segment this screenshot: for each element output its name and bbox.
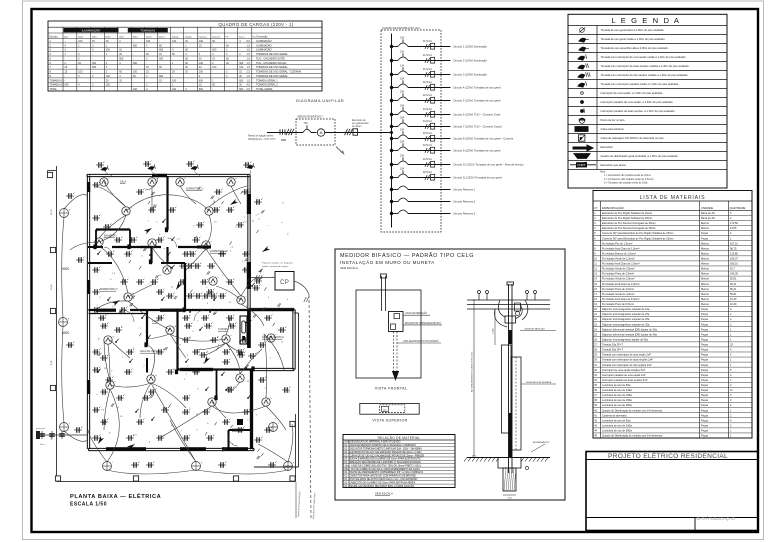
svg-text:Metros: Metros [701, 257, 710, 261]
svg-text:de 32mm: de 32mm [352, 126, 362, 128]
svg-text:100: 100 [106, 84, 111, 87]
svg-text:183,10: 183,10 [730, 262, 738, 266]
svg-text:ESCALA 1/50: ESCALA 1/50 [70, 502, 107, 508]
svg-text:c: c [170, 266, 171, 268]
svg-text:#4,0mm²: #4,0mm² [423, 108, 432, 111]
service entrance wire (left feed) [267, 132, 296, 134]
svg-text:Peças: Peças [701, 353, 709, 357]
svg-text:Peças: Peças [701, 383, 709, 387]
svg-text:c: c [98, 238, 99, 240]
svg-text:Peças: Peças [701, 368, 709, 372]
svg-text:100: 100 [78, 71, 83, 74]
leader curves from arandelas [104, 170, 112, 176]
svg-text:CAIXA DE MEDIÇÃO: CAIXA DE MEDIÇÃO [405, 312, 427, 315]
interior walls [166, 176, 168, 230]
svg-text:100: 100 [212, 66, 217, 69]
svg-text:10,30: 10,30 [730, 297, 737, 301]
svg-text:243,35: 243,35 [730, 272, 738, 276]
svg-text:Peças: Peças [701, 307, 709, 311]
svg-text:Luminária de uso de 300w: Luminária de uso de 300w [602, 429, 632, 433]
svg-text:Eletroduto de Pvc Rígido Soldá: Eletroduto de Pvc Rígido Soldável de 25m… [602, 216, 652, 220]
svg-text:Peças: Peças [701, 348, 709, 352]
medidor detail outer box [335, 249, 565, 500]
leaders [403, 314, 430, 316]
svg-text:10,30: 10,30 [730, 302, 737, 306]
svg-text:6000: 6000 [62, 331, 69, 335]
svg-text:100: 100 [172, 79, 177, 82]
svg-text:Peças: Peças [701, 418, 709, 422]
kWh meter M [311, 132, 317, 134]
svg-text:LISTA DE MATERIAIS: LISTA DE MATERIAIS [640, 195, 706, 201]
svg-text:20A: 20A [400, 128, 405, 131]
svg-text:ATERRAMENTO: ATERRAMENTO [533, 441, 550, 444]
pole detail: network wires [467, 299, 550, 301]
svg-text:Metros: Metros [701, 262, 710, 266]
svg-text:DORMITÓRIO 3: DORMITÓRIO 3 [100, 288, 118, 291]
black leader arrows [144, 228, 152, 234]
house exterior walls [87, 173, 250, 175]
svg-text:Fuga de conduíte, ver diagrama: Fuga de conduíte, ver diagrama [262, 262, 294, 265]
jumper wires [498, 300, 505, 317]
svg-text:Nº: Nº [595, 206, 598, 210]
svg-text:Eletroduto.: Eletroduto. [601, 145, 614, 149]
door swing arcs [145, 177, 158, 190]
svg-text:Barra de 3m: Barra de 3m [701, 216, 715, 220]
circuit branch 6 [390, 113, 393, 116]
svg-text:Peças: Peças [701, 327, 709, 331]
side yard wall [298, 313, 300, 467]
svg-text:150w: 150w [92, 36, 98, 38]
svg-text:ILUMINAÇÃO: ILUMINAÇÃO [256, 49, 272, 52]
outdoor pole lights [60, 209, 69, 218]
svg-text:LINK ELETRODUTO PVC RÍGIDO: LINK ELETRODUTO PVC RÍGIDO [403, 340, 439, 343]
svg-text:600: 600 [159, 75, 164, 78]
svg-text:01 - ARAME GALVANIZADO RECOZID: 01 - ARAME GALVANIZADO RECOZIDO BWG 14 P… [345, 485, 415, 488]
svg-text:Disjuntor termomagnético unipo: Disjuntor termomagnético unipolar de 20a [602, 317, 650, 321]
svg-text:Peças: Peças [701, 434, 709, 438]
svg-text:Circuito 9 (220V) Tomadas de u: Circuito 9 (220V) Tomadas de uso geral [453, 149, 501, 153]
svg-text:20A: 20A [400, 167, 405, 170]
svg-text:100: 100 [199, 40, 204, 43]
svg-text:100: 100 [172, 40, 177, 43]
svg-text:100: 100 [172, 88, 177, 91]
feeder down from CP [294, 281, 309, 295]
svg-text:600: 600 [92, 66, 97, 69]
svg-text:Curva de 90° para Eletroduto d: Curva de 90° para Eletroduto de Pvc Rígi… [602, 231, 673, 235]
circuit branch 7 [390, 125, 393, 128]
svg-text:Metros: Metros [701, 267, 710, 271]
svg-text:Fio Isolado Branco de 1,5mm²: Fio Isolado Branco de 1,5mm² [602, 251, 636, 255]
svg-text:Quadro de distribuição geral e: Quadro de distribuição geral embutido, a… [601, 154, 679, 158]
svg-text:TUG - CHUVEIRO SUÍTE: TUG - CHUVEIRO SUÍTE [256, 57, 285, 60]
svg-text:100: 100 [106, 75, 111, 78]
svg-text:Fio Isolado Verde de 1,5mm²: Fio Isolado Verde de 1,5mm² [602, 257, 635, 261]
svg-text:10A: 10A [400, 36, 405, 39]
svg-text:Tomada com interruptor de duas: Tomada com interruptor de duas seções 2x… [602, 358, 653, 362]
svg-text:QD: QD [383, 410, 387, 412]
svg-text:P: P [580, 137, 582, 141]
svg-text:5000: 5000 [62, 267, 69, 271]
dimension vertical [473, 300, 475, 456]
svg-text:Circuito 7 (220V) TUG – Chuvei: Circuito 7 (220V) TUG – Chuveiro Social [453, 125, 502, 129]
svg-text:INSTALAÇÃO EM MURO OU MURE: INSTALAÇÃO EM MURO OU MURETA [340, 259, 435, 265]
svg-text:L E G E N D A: L E G E N D A [611, 16, 680, 25]
svg-text:MEDIDOR BIFÁSICO: MEDIDOR BIFÁSICO [298, 115, 323, 119]
svg-text:TOMADA G 2: TOMADA G 2 [50, 84, 65, 87]
svg-text:98,75: 98,75 [730, 246, 737, 250]
svg-text:Tomada com interruptor de três: Tomada com interruptor de três seções 2x… [602, 363, 652, 367]
svg-text:unifilar e quadro de cargas: unifilar e quadro de cargas [262, 265, 289, 268]
svg-text:TOMADAS DE USO GERAL - COZINHA: TOMADAS DE USO GERAL - COZINHA [256, 71, 301, 74]
ground line + hatch [467, 457, 550, 459]
svg-text:Tomada com interruptor de uma: Tomada com interruptor de uma seção 2x4" [602, 353, 651, 357]
svg-text:CAIXA DE MEDIÇÃO: CAIXA DE MEDIÇÃO [524, 328, 545, 331]
svg-text:ALTURA MÍNIMA DO CONDUTOR 5,50: ALTURA MÍNIMA DO CONDUTOR 5,50m [471, 351, 474, 392]
svg-text:100: 100 [133, 88, 138, 91]
svg-text:Circuito Reserva 3: Circuito Reserva 3 [453, 212, 476, 216]
svg-text:Fio Isolado Preto de 2,5mm²: Fio Isolado Preto de 2,5mm² [602, 272, 634, 276]
svg-text:Disjuntor diferencial residual: Disjuntor diferencial residual (DR) bipo… [602, 327, 658, 331]
svg-text:Tomada com interruptor paralel: Tomada com interruptor paralelo médio a … [601, 82, 680, 86]
svg-text:Metros: Metros [701, 282, 710, 286]
svg-text:100: 100 [199, 62, 204, 65]
svg-text:Circuito 5 (220V) Tomadas de u: Circuito 5 (220V) Tomadas de uso geral [453, 99, 501, 103]
svg-text:Peças: Peças [701, 332, 709, 336]
svg-text:29,70: 29,70 [51, 209, 53, 215]
svg-text:Tomada 20a 2P+T: Tomada 20a 2P+T [602, 348, 623, 352]
svg-text:c: c [206, 287, 207, 289]
mural stand rects [502, 345, 512, 433]
svg-text:Peças: Peças [701, 429, 709, 433]
relacao de material table [343, 435, 455, 488]
svg-text:Tomada 10a 2P+T: Tomada 10a 2P+T [602, 343, 623, 347]
window marks on top wall [152, 174, 167, 177]
svg-text:Circuito 11 (220V) Tomadas de: Circuito 11 (220V) Tomadas de uso geral [453, 176, 502, 180]
circuit branch 8 [390, 137, 393, 140]
svg-text:Disjuntor termomagnético bipol: Disjuntor termomagnético bipolar de 50a [602, 337, 648, 341]
svg-text:30A: 30A [400, 116, 405, 119]
svg-text:TOMADAS DE USO GERAL: TOMADAS DE USO GERAL [256, 75, 288, 78]
svg-text:PROJETO ELÉTRICO RESIDENCIAL: PROJETO ELÉTRICO RESIDENCIAL [608, 451, 728, 460]
entrance at left bottom [36, 434, 88, 436]
svg-text:Ponto de luz no teto.: Ponto de luz no teto. [601, 118, 626, 122]
svg-text:Peças: Peças [701, 398, 709, 402]
svg-text:Fio Isolado Azul Claro de 2,5m: Fio Isolado Azul Claro de 2,5mm² [602, 262, 640, 266]
quadro de cargas table [48, 21, 322, 91]
svg-text:Metros: Metros [701, 226, 710, 230]
svg-text:Metros: Metros [701, 246, 710, 250]
svg-text:SALA: SALA [120, 181, 127, 184]
svg-text:20A: 20A [400, 77, 405, 80]
svg-text:Peças: Peças [701, 236, 709, 240]
svg-text:100: 100 [78, 40, 83, 43]
svg-text:Peças: Peças [701, 358, 709, 362]
svg-text:200w: 200w [105, 36, 111, 38]
svg-text:3 = Tomadas não cotadas serão: 3 = Tomadas não cotadas serão de 100a. [604, 181, 648, 184]
svg-text:Peças: Peças [701, 423, 709, 427]
tomada symbols [96, 162, 104, 168]
svg-text:c: c [267, 225, 268, 227]
svg-text:Fio Isolado Preto de 6,0mm²: Fio Isolado Preto de 6,0mm² [602, 302, 634, 306]
foundation [498, 458, 521, 469]
svg-text:#2,5mm²: #2,5mm² [423, 94, 432, 97]
floor plan group [36, 161, 316, 519]
conduit curves [126, 195, 209, 211]
svg-text:Circuito 1 (220V) Iluminação: Circuito 1 (220V) Iluminação [453, 45, 487, 49]
svg-text:Peças: Peças [701, 378, 709, 382]
svg-text:Peças: Peças [701, 363, 709, 367]
svg-text:Metros: Metros [701, 277, 710, 281]
svg-text:#2,5mm²: #2,5mm² [423, 144, 432, 147]
svg-text:42,7: 42,7 [730, 267, 736, 271]
svg-text:100: 100 [106, 49, 111, 52]
medidor bifasico dashed box U1 [296, 119, 335, 145]
svg-text:TOMADA GERAL 1: TOMADA GERAL 1 [256, 79, 278, 82]
circuit branch 10 [390, 163, 393, 166]
svg-text:UNIDADE: UNIDADE [701, 206, 713, 210]
svg-text:185,37: 185,37 [730, 257, 738, 261]
circuit branch 3 [390, 73, 393, 76]
svg-text:Curva de 90° para Eletroduto d: Curva de 90° para Eletroduto de Pvc Rígi… [602, 236, 673, 240]
circuit branch 13 [390, 200, 393, 203]
dashed drop conduit [393, 332, 395, 372]
svg-text:Eletroduto que desce.: Eletroduto que desce. [601, 163, 627, 167]
svg-text:poste part.: poste part. [36, 427, 46, 430]
svg-text:55,81: 55,81 [730, 292, 737, 296]
svg-text:Tomada com interruptor de três: Tomada com interruptor de três seções mé… [601, 73, 689, 77]
svg-text:55,81: 55,81 [730, 277, 737, 281]
svg-text:10,00: 10,00 [51, 284, 53, 290]
svg-text:Nota :: Nota : [600, 171, 607, 174]
svg-text:Metros: Metros [701, 292, 710, 296]
svg-text:c: c [252, 399, 253, 401]
svg-text:Disjuntor diferencial residual: Disjuntor diferencial residual (DR) bipo… [602, 332, 658, 336]
svg-text:50,41: 50,41 [730, 282, 737, 286]
svg-text:Disjuntor termomagnético unipo: Disjuntor termomagnético unipolar de 10a [602, 307, 650, 311]
svg-text:Interruptor de uma seção, a 1,: Interruptor de uma seção, a 1,30m do pis… [601, 91, 664, 95]
svg-text:#2,5mm²: #2,5mm² [423, 171, 432, 174]
svg-text:TOMADA G 1: TOMADA G 1 [50, 79, 65, 82]
svg-text:600: 600 [159, 57, 164, 60]
svg-text:Metros: Metros [701, 251, 710, 255]
svg-text:TUG - CHUVEIRO SOCIAL: TUG - CHUVEIRO SOCIAL [256, 62, 287, 65]
svg-text:100w: 100w [78, 36, 84, 38]
svg-text:SEM ESCALA: SEM ESCALA [375, 492, 393, 496]
svg-text:20A: 20A [400, 90, 405, 93]
svg-text:Luminária de teto de 150w: Luminária de teto de 150w [602, 393, 632, 397]
svg-text:600: 600 [199, 88, 204, 91]
circuit branch 9 [390, 149, 393, 152]
svg-text:Peças: Peças [701, 343, 709, 347]
svg-text:60w: 60w [64, 36, 68, 38]
service annex walls [249, 307, 294, 309]
svg-text:600: 600 [212, 49, 217, 52]
svg-text:Peças: Peças [701, 408, 709, 412]
svg-text:c: c [244, 216, 245, 218]
svg-text:Quadro de Distribuição de embu: Quadro de Distribuição de embutir com 14… [602, 408, 663, 412]
svg-text:QUADRO DE CARGAS (220V - 1): QUADRO DE CARGAS (220V - 1) [218, 22, 293, 27]
svg-text:600: 600 [239, 62, 244, 65]
svg-text:Peças: Peças [701, 317, 709, 321]
insulators [478, 294, 480, 301]
door frame blobs [165, 227, 168, 232]
svg-text:BANHEIRO: BANHEIRO [104, 235, 117, 238]
svg-text:DEPÓSITO: DEPÓSITO [232, 428, 244, 431]
svg-text:1 = eletrodutos não cotados se: 1 = eletrodutos não cotados serão de 15m… [604, 174, 652, 177]
svg-text:Tomada de uso específico alta: Tomada de uso específico alta a 2,00m do… [601, 46, 669, 50]
svg-text:Potência: Potência [198, 35, 207, 38]
svg-text:Peças: Peças [701, 312, 709, 316]
svg-text:3#10(10)mm² - PVC 70°C: 3#10(10)mm² - PVC 70°C [248, 138, 276, 141]
svg-text:Luminária de teto de 200w: Luminária de teto de 200w [602, 398, 632, 402]
main bus [391, 34, 393, 228]
svg-text:CP: CP [280, 279, 289, 286]
svg-text:Metros: Metros [701, 287, 710, 291]
svg-text:MURETA DE ALVENARIA: MURETA DE ALVENARIA [526, 381, 552, 384]
circuit branch 12 [390, 188, 393, 191]
svg-text:MEDIDOR BIFÁSICO — PADRÃO: MEDIDOR BIFÁSICO — PADRÃO TIPO CELG [340, 252, 474, 259]
breaker DJ geral (arc) [296, 132, 303, 134]
svg-text:Metros: Metros [701, 221, 710, 225]
svg-text:Fio Isolado Pvc de 1,5mm²: Fio Isolado Pvc de 1,5mm² [602, 241, 632, 245]
svg-text:300w: 300w [133, 36, 139, 38]
svg-text:Peças: Peças [701, 337, 709, 341]
svg-text:2 = Condutores não cotados ser: 2 = Condutores não cotados serão de 2,5m… [604, 178, 654, 181]
svg-text:#4,0mm²: #4,0mm² [423, 120, 432, 123]
svg-text:600: 600 [133, 44, 138, 47]
svg-text:Descrição: Descrição [257, 35, 269, 38]
svg-text:#2,5mm²: #2,5mm² [423, 158, 432, 161]
svg-text:ÁREA DE SERVIÇO: ÁREA DE SERVIÇO [262, 336, 284, 339]
svg-text:SALA DE JANTAR: SALA DE JANTAR [140, 350, 160, 353]
svg-text:DORMITÓRIO 1: DORMITÓRIO 1 [186, 188, 204, 191]
svg-text:TOMADA GERAL 2: TOMADA GERAL 2 [256, 84, 278, 87]
svg-text:Circuito: Circuito [49, 35, 58, 38]
svg-text:Peças: Peças [701, 393, 709, 397]
svg-text:Disjuntor termomagnético unipo: Disjuntor termomagnético unipolar de 25a [602, 322, 650, 326]
leader notes right [520, 330, 556, 332]
svg-text:TELEF: TELEF [577, 127, 585, 131]
quadro de distribuicao dashed box [381, 30, 441, 232]
svg-text:Metros: Metros [701, 297, 710, 301]
svg-text:TOTAL: TOTAL [50, 88, 58, 91]
svg-text:Caixa de passagem 10x10x5cm de: Caixa de passagem 10x10x5cm de alvenaria… [601, 136, 665, 140]
svg-text:TOMADAS: TOMADAS [140, 29, 155, 33]
arandela wall lights top [101, 165, 109, 171]
svg-text:10A: 10A [400, 64, 405, 67]
svg-text:427,10: 427,10 [730, 241, 738, 245]
svg-text:Fio Isolado Azul Claro de 1,5m: Fio Isolado Azul Claro de 1,5mm² [602, 246, 640, 250]
svg-text:100w: 100w [119, 36, 125, 38]
title block [586, 452, 758, 531]
svg-text:20A: 20A [400, 154, 405, 157]
leader arrow note [336, 147, 342, 153]
svg-text:#1,5mm²: #1,5mm² [423, 68, 432, 71]
pole hardware [505, 316, 516, 323]
svg-text:FNRT: FNRT [578, 163, 586, 167]
svg-text:Interruptor paralelo de uma se: Interruptor paralelo de uma seção, a 1,3… [601, 100, 674, 104]
svg-text:Interruptor paralelo de uma se: Interruptor paralelo de uma seção 2x4" [602, 373, 646, 377]
svg-text:Eletroduto de Pvc Flexível Cor: Eletroduto de Pvc Flexível Corrugado de … [602, 226, 656, 230]
vista frontal: wall [356, 290, 421, 378]
svg-text:600va: 600va [159, 36, 166, 38]
svg-text:Circuito 8 (220V) Tomadas de u: Circuito 8 (220V) Tomadas de uso geral –… [453, 137, 514, 141]
svg-text:Circuito Reserva 1: Circuito Reserva 1 [453, 188, 476, 192]
svg-text:Luminária de uso de 300w: Luminária de uso de 300w [602, 403, 632, 407]
property boundary [56, 166, 58, 482]
svg-text:120,85: 120,85 [730, 251, 738, 255]
ceiling light symbols [122, 207, 130, 215]
svg-text:Metros: Metros [701, 302, 710, 306]
svg-text:DIAGRAMA UNIFILAR: DIAGRAMA UNIFILAR [296, 98, 344, 103]
svg-text:Interruptor paralelo de duas s: Interruptor paralelo de duas seções 2x4" [602, 378, 648, 382]
svg-text:600: 600 [159, 49, 164, 52]
svg-text:Fio Isolado Azul Claro de 6,0m: Fio Isolado Azul Claro de 6,0mm² [602, 297, 640, 301]
circuit branch 2 [390, 59, 393, 62]
svg-text:TOTAL GERAL: TOTAL GERAL [256, 88, 274, 91]
wires wall to CP [251, 277, 275, 279]
svg-text:Tomada com interruptor de duas: Tomada com interruptor de duas seções mé… [601, 64, 690, 68]
svg-text:Caixa para telefone.: Caixa para telefone. [601, 127, 625, 131]
svg-text:M: M [320, 131, 323, 135]
svg-text:Circuito 2 (220V) Iluminação: Circuito 2 (220V) Iluminação [453, 59, 487, 63]
svg-text:70A: 70A [304, 122, 309, 125]
svg-text:600: 600 [239, 88, 244, 91]
svg-text:DISJUNTOR TERMOMAGNÉTICO: DISJUNTOR TERMOMAGNÉTICO [405, 322, 441, 325]
svg-text:Circuito 10 (220V) Tomadas de: Circuito 10 (220V) Tomadas de uso geral … [453, 163, 524, 167]
svg-text:Tomada de uso geral média a 1: Tomada de uso geral média a 1,30m do pis… [601, 37, 666, 41]
svg-text:50,41: 50,41 [730, 287, 737, 291]
svg-text:Peças: Peças [701, 373, 709, 377]
vista superior [360, 403, 419, 414]
svg-text:Circuito 6 (220V) TUG – Chuvei: Circuito 6 (220V) TUG – Chuveiro Suíte [453, 113, 501, 117]
svg-text:Metros: Metros [701, 241, 710, 245]
svg-text:12,55: 12,55 [730, 226, 737, 230]
svg-text:Quadro de Distribuição de embu: Quadro de Distribuição de embutir com 14… [602, 434, 663, 438]
svg-text:VISTA FRONTAL: VISTA FRONTAL [375, 387, 408, 391]
svg-text:Fio Isolado Verde de 2,5mm²: Fio Isolado Verde de 2,5mm² [602, 267, 635, 271]
svg-text:Barra de 3m: Barra de 3m [701, 211, 715, 215]
wire meter to panel [335, 132, 392, 134]
svg-text:Tomada de uso geral baixa a 0: Tomada de uso geral baixa a 0,30m do pis… [601, 28, 665, 32]
svg-text:600: 600 [133, 62, 138, 65]
svg-text:Eletroduto de: Eletroduto de [352, 119, 366, 122]
conductor slash marks [286, 129, 289, 135]
svg-text:Circuito 3 (220V) Iluminação: Circuito 3 (220V) Iluminação [453, 73, 487, 77]
svg-text:#2,5mm²: #2,5mm² [423, 132, 432, 135]
svg-text:Fio Isolado Verde de 2,5mm²: Fio Isolado Verde de 2,5mm² [602, 277, 635, 281]
svg-text:100: 100 [239, 66, 244, 69]
svg-text:Circuito Reserva 2: Circuito Reserva 2 [453, 200, 476, 204]
down arrow [392, 371, 399, 381]
conduit top [381, 276, 383, 311]
svg-text:Peças: Peças [701, 322, 709, 326]
svg-text:Luminária de teto de 100w: Luminária de teto de 100w [602, 388, 632, 392]
lista de materiais table [593, 191, 752, 439]
circuit branch 4 [390, 86, 393, 89]
svg-text:1500va: 1500va [185, 36, 193, 38]
svg-text:SEM ESCALA: SEM ESCALA [340, 266, 358, 270]
svg-text:Fio Isolado Azul Claro de 4,0m: Fio Isolado Azul Claro de 4,0mm² [602, 282, 640, 286]
pole top [508, 284, 510, 473]
svg-text:PLANTA BAIXA — ELÉTRICA: PLANTA BAIXA — ELÉTRICA [70, 492, 161, 500]
svg-text:ILUMINAÇÃO: ILUMINAÇÃO [256, 40, 272, 43]
svg-text:Disjuntor termomagnético unipo: Disjuntor termomagnético unipolar de 15a [602, 312, 650, 316]
svg-text:Peças: Peças [701, 388, 709, 392]
svg-text:Fio Isolado Preto de 4,0mm²: Fio Isolado Preto de 4,0mm² [602, 287, 634, 291]
svg-text:Peças: Peças [701, 403, 709, 407]
svg-text:RELAÇÃO DE MATERIAL: RELAÇÃO DE MATERIAL [378, 435, 421, 440]
